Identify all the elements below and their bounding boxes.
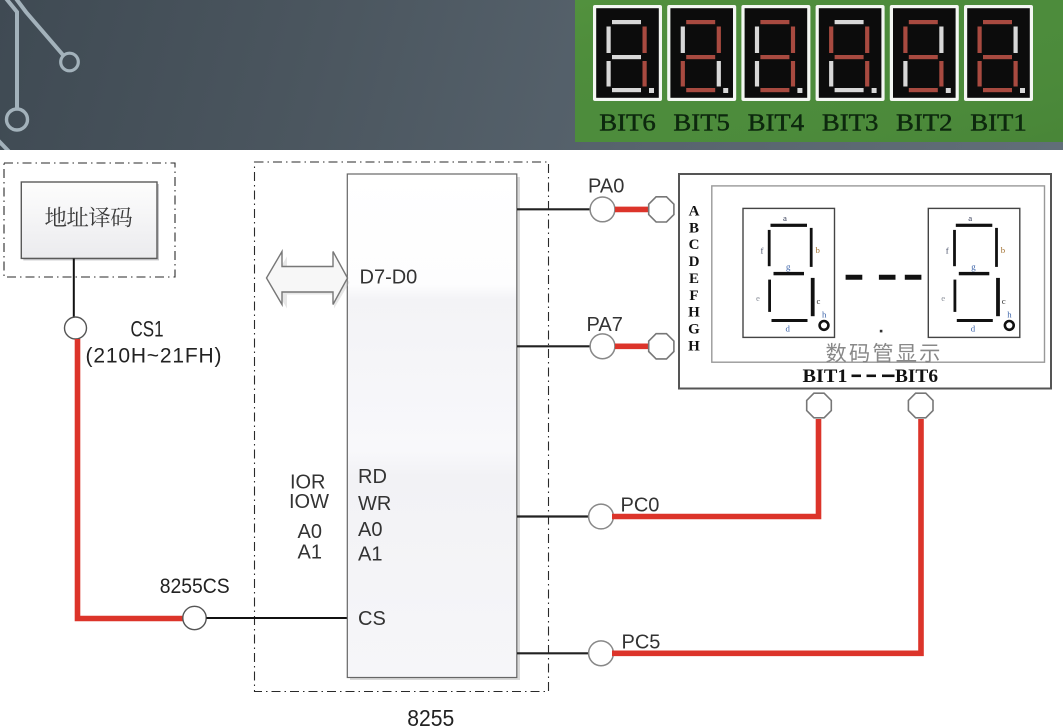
svg-text:8255: 8255 [407, 705, 454, 727]
svg-text:b: b [816, 245, 821, 255]
svg-text:CS1: CS1 [131, 317, 164, 342]
svg-text:PC0: PC0 [621, 495, 660, 517]
svg-text:f: f [761, 245, 764, 255]
svg-text:e: e [941, 293, 945, 303]
svg-text:(210H~21FH): (210H~21FH) [86, 345, 222, 368]
svg-text:d: d [971, 323, 976, 333]
svg-text:IOW: IOW [289, 491, 329, 513]
svg-text:F: F [689, 288, 698, 304]
svg-text:PA0: PA0 [588, 176, 624, 198]
svg-text:D7-D0: D7-D0 [360, 266, 418, 288]
svg-text:CS: CS [358, 608, 386, 630]
svg-text:g: g [971, 261, 976, 271]
svg-text:BIT6: BIT6 [895, 366, 938, 387]
svg-text:A1: A1 [298, 541, 322, 563]
svg-text:H: H [688, 338, 700, 354]
svg-text:PC5: PC5 [622, 632, 661, 654]
svg-text:d: d [786, 323, 791, 333]
svg-text:a: a [783, 213, 787, 223]
svg-text:A1: A1 [358, 544, 382, 566]
svg-text:PA7: PA7 [587, 314, 623, 336]
svg-text:H: H [688, 305, 700, 321]
svg-text:g: g [786, 261, 791, 271]
svg-text:D: D [689, 254, 700, 270]
svg-text:h: h [822, 309, 827, 319]
svg-text:A0: A0 [298, 521, 322, 543]
svg-text:b: b [1001, 245, 1006, 255]
svg-text:A0: A0 [358, 519, 382, 541]
svg-text:a: a [968, 213, 972, 223]
svg-text:c: c [1002, 296, 1006, 306]
svg-text:B: B [689, 220, 699, 236]
svg-text:RD: RD [358, 466, 387, 488]
svg-text:A: A [689, 204, 700, 220]
svg-text:h: h [1007, 309, 1012, 319]
svg-text:f: f [946, 245, 949, 255]
svg-text:C: C [689, 237, 700, 253]
svg-text:8255CS: 8255CS [160, 575, 230, 598]
svg-text:e: e [756, 293, 760, 303]
svg-text:WR: WR [358, 493, 391, 515]
svg-text:E: E [689, 271, 699, 287]
svg-text:BIT1: BIT1 [803, 366, 848, 387]
svg-text:G: G [688, 322, 700, 338]
svg-text:c: c [817, 296, 821, 306]
